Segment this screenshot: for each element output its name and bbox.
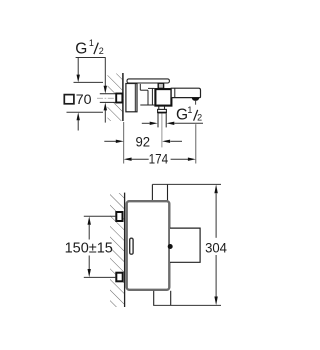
dim 304: vertical line + arrows	[214, 184, 217, 193]
escutcheon (top view)	[126, 84, 137, 112]
leader underline of G1/2 (top)	[76, 57, 106, 59]
spout flange line	[174, 88, 176, 97]
fitting centerline (top view)	[97, 97, 123, 99]
svg-text:1: 1	[187, 105, 192, 115]
svg-text:1: 1	[89, 38, 94, 48]
dim 92: left arrow (points right)	[104, 140, 116, 142]
shower outlet thread tube	[157, 113, 159, 127]
top supply fitting (side view)	[116, 212, 122, 221]
handle cube (top view)	[155, 89, 171, 106]
svg-text:304: 304	[205, 240, 227, 256]
body (side view)	[127, 201, 170, 290]
svg-text:G: G	[176, 106, 188, 123]
top cover bar (top view)	[127, 79, 169, 83]
top outlet piece (side view)	[151, 184, 153, 200]
svg-text:G: G	[75, 41, 87, 58]
drip line below aerator	[195, 101, 197, 105]
stop button dot	[168, 244, 173, 249]
svg-text:150±15: 150±15	[65, 240, 113, 256]
leader drop to 70-dim (arrow down at x=78)	[77, 58, 79, 76]
dim 150±15: top extension line	[84, 215, 116, 217]
svg-text:70: 70	[76, 92, 92, 108]
temperature slot on body	[130, 238, 133, 254]
fitting pipe (top view)	[100, 94, 116, 103]
shower outlet stem below cube	[159, 106, 165, 110]
wall hatch (side view)	[110, 193, 125, 307]
aerator (mousseur) under spout	[192, 98, 200, 101]
escutcheon inner edge line	[134, 84, 136, 112]
G1/2 bottom: left tail and arrow (points right at thread)	[142, 122, 150, 124]
leader drop to fitting (arrow down at x=105.3)	[104, 58, 106, 87]
handle (side view)	[170, 228, 200, 262]
extension line left (wall) for dims 92/174	[123, 122, 125, 164]
spout (top view)	[171, 88, 200, 97]
extension line bottom (for dim 304)	[153, 304, 221, 306]
extension line top (for dim 304)	[152, 183, 221, 185]
wall union square (top view)	[116, 94, 122, 103]
square symbol of "70"	[64, 95, 74, 104]
dim 174: line with inside arrows pointing outward	[124, 158, 132, 161]
svg-text:92: 92	[136, 134, 151, 150]
G1/2 bottom: right arrow (points left at thread) + underline	[166, 122, 174, 125]
bottom supply fitting (side view)	[116, 273, 122, 282]
dim 150±15: vertical line + arrows	[88, 216, 91, 224]
bottom outlet piece (side view)	[153, 291, 155, 306]
handle stem (top view)	[158, 83, 163, 88]
outlet centerline (extension for dim 92)	[161, 114, 163, 148]
label G1/2 (top)	[75, 38, 103, 58]
label G1/2 (bottom)	[176, 105, 202, 123]
housing step lines between escutcheon and cube	[140, 84, 154, 105]
wall hatch (top view)	[108, 74, 123, 122]
shower outlet nut	[158, 109, 167, 112]
svg-text:174: 174	[149, 152, 169, 168]
wall line (top view)	[122, 73, 124, 121]
wall line (side view)	[124, 193, 126, 307]
dim 92: right arrow (points left)	[162, 140, 170, 143]
svg-text:2: 2	[99, 46, 104, 56]
dim 150±15: bottom extension line	[84, 276, 116, 278]
dim 70: bottom extension line	[67, 111, 104, 113]
extension line right for dim 174 (below aerator)	[195, 124, 197, 163]
dim 70: top extension line	[74, 81, 104, 83]
svg-text:2: 2	[197, 112, 202, 122]
dim 70: bottom arrow (up)	[77, 119, 79, 130]
fitting bottom arrow (up, at x=105.3)	[104, 110, 106, 123]
